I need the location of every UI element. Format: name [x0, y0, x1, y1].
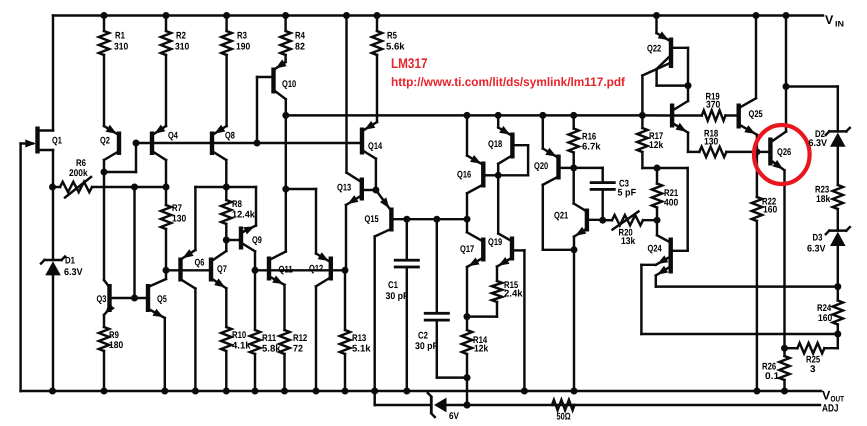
svg-text:Q10: Q10 [282, 79, 296, 90]
svg-text:Q8: Q8 [225, 131, 235, 142]
svg-text:R4: R4 [295, 31, 305, 42]
svg-text:Q17: Q17 [460, 244, 474, 255]
svg-text:C1: C1 [388, 280, 398, 291]
svg-text:Q21: Q21 [554, 211, 569, 222]
svg-text:Q2: Q2 [100, 136, 110, 147]
svg-text:Q4: Q4 [168, 131, 178, 142]
svg-text:Q24: Q24 [648, 244, 663, 255]
svg-text:R2: R2 [176, 31, 186, 42]
svg-text:LM317: LM317 [391, 55, 428, 71]
svg-text:160: 160 [818, 313, 832, 324]
svg-text:R1: R1 [115, 31, 125, 42]
svg-text:370: 370 [706, 100, 720, 111]
svg-text:Q14: Q14 [368, 141, 383, 152]
svg-text:Q1: Q1 [52, 136, 62, 147]
svg-text:Q25: Q25 [749, 109, 764, 120]
svg-text:http://www.ti.com/lit/ds/symli: http://www.ti.com/lit/ds/symlink/lm117.p… [391, 75, 626, 89]
svg-text:ADJ: ADJ [822, 403, 839, 415]
svg-text:190: 190 [236, 42, 250, 53]
svg-text:160: 160 [763, 205, 777, 216]
svg-text:R11: R11 [262, 333, 277, 344]
svg-text:Q18: Q18 [488, 139, 503, 150]
svg-text:R12: R12 [293, 333, 307, 344]
svg-text:4.1k: 4.1k [232, 341, 251, 352]
svg-text:Q5: Q5 [157, 294, 167, 305]
svg-text:12k: 12k [649, 140, 664, 151]
svg-text:Q12: Q12 [309, 264, 323, 275]
svg-text:5.1k: 5.1k [352, 344, 371, 355]
svg-text:2.4k: 2.4k [504, 289, 523, 300]
svg-text:6.3V: 6.3V [807, 244, 826, 255]
svg-text:5 pF: 5 pF [618, 188, 637, 199]
svg-text:IN: IN [835, 20, 844, 29]
svg-text:13k: 13k [621, 236, 636, 247]
svg-text:12.4k: 12.4k [232, 210, 256, 221]
svg-text:130: 130 [172, 214, 186, 225]
svg-text:Q3: Q3 [97, 294, 107, 305]
svg-text:6.3V: 6.3V [809, 138, 828, 149]
svg-text:310: 310 [175, 42, 189, 53]
svg-text:D3: D3 [813, 233, 823, 244]
svg-text:200k: 200k [69, 168, 88, 179]
svg-text:Q11: Q11 [279, 265, 294, 276]
svg-text:Q26: Q26 [777, 147, 791, 158]
svg-text:Q9: Q9 [252, 235, 262, 246]
svg-text:V: V [825, 13, 834, 27]
svg-text:Q15: Q15 [365, 214, 380, 225]
svg-text:R13: R13 [352, 333, 366, 344]
svg-text:12k: 12k [474, 344, 489, 355]
svg-text:72: 72 [293, 344, 303, 355]
svg-text:30 pF: 30 pF [386, 291, 409, 302]
svg-text:400: 400 [664, 198, 678, 209]
svg-text:6V: 6V [449, 411, 459, 421]
svg-text:Q6: Q6 [195, 258, 205, 269]
svg-text:5.8k: 5.8k [262, 344, 281, 355]
svg-text:D1: D1 [65, 256, 75, 267]
svg-text:3: 3 [810, 364, 816, 375]
svg-text:Q7: Q7 [217, 264, 227, 275]
svg-text:R10: R10 [232, 330, 246, 341]
svg-text:50Ω: 50Ω [557, 412, 571, 422]
svg-text:Q20: Q20 [534, 161, 548, 172]
svg-text:Q22: Q22 [647, 44, 661, 55]
svg-text:R5: R5 [387, 31, 397, 42]
svg-text:82: 82 [295, 42, 305, 53]
svg-text:30 pF: 30 pF [415, 341, 438, 352]
svg-text:R8: R8 [232, 199, 242, 210]
svg-text:0.1: 0.1 [765, 371, 780, 382]
svg-text:310: 310 [114, 42, 128, 53]
svg-text:Q13: Q13 [337, 183, 351, 194]
svg-text:18k: 18k [816, 194, 831, 205]
svg-text:6.3V: 6.3V [64, 267, 83, 278]
svg-text:R7: R7 [172, 203, 182, 214]
svg-text:5.6k: 5.6k [386, 42, 405, 53]
svg-text:C2: C2 [418, 331, 428, 342]
svg-text:R3: R3 [237, 31, 247, 42]
svg-text:6.7k: 6.7k [582, 142, 601, 153]
svg-text:130: 130 [704, 137, 718, 148]
svg-text:Q19: Q19 [488, 237, 502, 248]
svg-text:180: 180 [109, 340, 123, 351]
svg-text:Q16: Q16 [457, 170, 471, 181]
